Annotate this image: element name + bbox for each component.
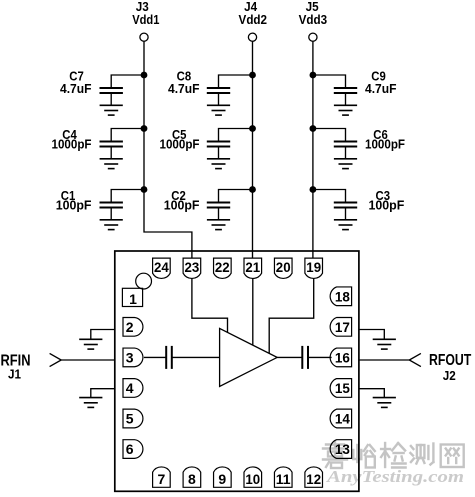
svg-text:RFOUT: RFOUT	[429, 352, 471, 369]
svg-text:15: 15	[335, 380, 350, 396]
pin 1	[122, 288, 142, 307]
svg-text:18: 18	[335, 289, 350, 305]
wire pin21 to amp	[252, 278, 254, 345]
pin 16	[330, 348, 351, 367]
IC U1 package outline	[115, 251, 359, 491]
svg-text:12: 12	[306, 471, 321, 487]
capacitor output coupling	[302, 346, 308, 369]
svg-text:AnyTesting.com: AnyTesting.com	[326, 467, 464, 486]
svg-text:4.7uF: 4.7uF	[60, 81, 92, 96]
capacitor C8 4.7uF	[168, 69, 253, 106]
junction	[249, 125, 256, 132]
svg-text:100pF: 100pF	[56, 198, 92, 213]
svg-text:1: 1	[129, 291, 137, 307]
wire pin19 to amp	[269, 278, 314, 353]
op-amp U1 amplifier triangle	[220, 328, 278, 386]
ground	[207, 159, 230, 169]
svg-text:100pF: 100pF	[164, 198, 200, 213]
pin 19	[305, 258, 323, 278]
pin 10	[244, 467, 262, 487]
connector J3 (Vdd1)	[132, 0, 159, 41]
svg-text:4.7uF: 4.7uF	[365, 81, 397, 96]
svg-text:10: 10	[245, 471, 260, 487]
ground	[334, 105, 357, 115]
pin 21	[244, 258, 262, 278]
svg-text:100pF: 100pF	[369, 198, 405, 213]
pin 8	[183, 467, 201, 487]
wire input cap to amp	[172, 356, 220, 358]
svg-text:2: 2	[126, 319, 134, 335]
wire pin16 to RFOUT	[359, 359, 409, 361]
wire pin23 to amp	[192, 278, 228, 332]
svg-text:6: 6	[126, 441, 134, 457]
svg-text:9: 9	[218, 471, 226, 487]
svg-text:22: 22	[215, 259, 230, 275]
pin 14	[330, 409, 351, 428]
capacitor C3 100pF	[313, 188, 404, 220]
svg-text:23: 23	[185, 259, 200, 275]
pin 4	[123, 379, 143, 398]
ground	[207, 105, 230, 115]
capacitor C2 100pF	[164, 188, 253, 220]
capacitor input coupling	[166, 346, 172, 369]
svg-text:20: 20	[276, 259, 291, 275]
junction	[310, 72, 317, 79]
junction	[249, 72, 256, 79]
pin 3	[123, 348, 143, 367]
svg-text:1000pF: 1000pF	[365, 137, 405, 152]
svg-text:8: 8	[188, 471, 196, 487]
junction	[141, 186, 148, 193]
ground	[100, 105, 123, 115]
wire RFIN to pin3	[61, 359, 115, 361]
wire Vdd1 net	[144, 42, 192, 259]
connector J5 (Vdd3)	[299, 0, 328, 41]
junction	[141, 72, 148, 79]
svg-text:Vdd2: Vdd2	[239, 12, 268, 27]
wire Vdd3 net	[312, 42, 314, 259]
ground	[207, 220, 230, 230]
wire pin4 to ground	[91, 389, 115, 398]
svg-text:19: 19	[306, 259, 321, 275]
pin 7	[153, 467, 171, 487]
svg-text:J2: J2	[443, 368, 456, 383]
pin 13	[330, 440, 351, 459]
svg-text:1000pF: 1000pF	[160, 137, 200, 152]
svg-text:4.7uF: 4.7uF	[168, 81, 200, 96]
pin 22	[214, 258, 232, 278]
junction	[310, 125, 317, 132]
capacitor C6 1000pF	[313, 127, 405, 159]
svg-text:11: 11	[276, 471, 291, 487]
capacitor C7 4.7uF	[60, 69, 144, 106]
junction	[310, 186, 317, 193]
ground	[373, 398, 396, 408]
ground	[100, 159, 123, 169]
junction	[249, 186, 256, 193]
pin 6	[123, 440, 143, 459]
watermark	[323, 442, 464, 486]
svg-text:J1: J1	[8, 367, 21, 382]
svg-text:7: 7	[158, 471, 166, 487]
ground	[79, 398, 102, 408]
wire pin3 to input cap	[144, 356, 166, 358]
ground	[79, 339, 102, 349]
svg-text:4: 4	[126, 380, 134, 396]
wire pin17 to ground	[359, 330, 384, 340]
pin 24	[153, 258, 171, 278]
svg-text:24: 24	[154, 259, 169, 275]
capacitor C9 4.7uF	[313, 69, 397, 106]
connector J4 (Vdd2)	[239, 0, 268, 41]
pin 9	[214, 467, 232, 487]
svg-text:5: 5	[126, 411, 134, 427]
svg-text:Vdd3: Vdd3	[299, 12, 328, 27]
svg-text:1000pF: 1000pF	[52, 137, 92, 152]
svg-text:13: 13	[335, 441, 350, 457]
wire pin15 to ground	[359, 389, 384, 398]
pin 15	[330, 379, 351, 398]
svg-text:17: 17	[335, 319, 350, 335]
pin 17	[330, 318, 351, 337]
svg-text:3: 3	[126, 350, 134, 366]
pin 11	[274, 467, 292, 487]
capacitor C5 1000pF	[160, 127, 253, 159]
pin 2	[123, 318, 143, 337]
connector J1 (RFIN)	[1, 352, 62, 381]
pin 20	[274, 258, 292, 278]
capacitor C1 100pF	[56, 188, 144, 220]
wire output cap to pin16	[308, 356, 332, 358]
svg-text:16: 16	[335, 350, 350, 366]
pin 5	[123, 409, 143, 428]
ground	[334, 220, 357, 230]
junction	[141, 125, 148, 132]
ground	[100, 220, 123, 230]
pin 18	[330, 287, 351, 306]
wire Vdd2 net	[252, 42, 254, 259]
wire pin2 to ground	[91, 330, 115, 340]
svg-text:21: 21	[245, 259, 260, 275]
wire amp to output cap	[277, 356, 302, 358]
ground	[334, 159, 357, 169]
svg-text:14: 14	[335, 411, 350, 427]
svg-text:Vdd1: Vdd1	[132, 12, 159, 27]
connector J2 (RFOUT)	[409, 352, 471, 383]
pin 12	[305, 467, 323, 487]
pin 1 indicator dot	[136, 273, 152, 289]
capacitor C4 1000pF	[52, 127, 145, 159]
pin 23	[183, 258, 201, 278]
ground	[373, 339, 396, 349]
